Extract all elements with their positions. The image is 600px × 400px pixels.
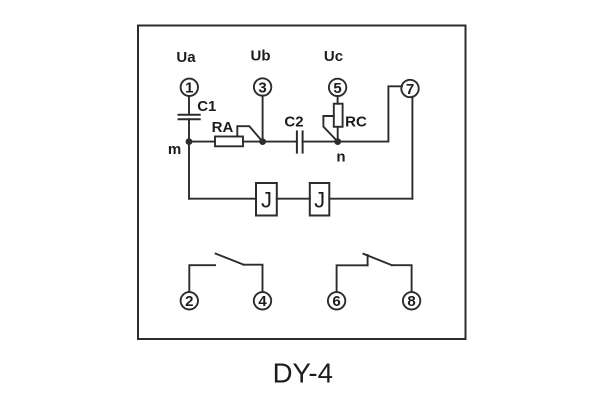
switch blade 2-4 xyxy=(216,254,244,265)
switch 6-8 contact stub xyxy=(367,255,369,265)
wire terminal 6 up xyxy=(337,265,368,292)
svg-text:Ua: Ua xyxy=(176,49,196,66)
wire to terminal 4 xyxy=(244,265,263,292)
svg-text:4: 4 xyxy=(258,293,267,310)
svg-text:m: m xyxy=(168,141,181,158)
border frame xyxy=(138,26,466,340)
svg-text:n: n xyxy=(336,149,345,166)
wire node m to RA xyxy=(189,141,215,143)
capacitor C2 xyxy=(284,114,303,153)
RA tap arm to node under terminal 3 xyxy=(237,126,262,141)
wire C1 to node m and down to relay row xyxy=(188,119,190,199)
terminal 1 xyxy=(181,79,198,97)
node under terminal 3 xyxy=(259,138,266,145)
svg-text:8: 8 xyxy=(407,293,415,310)
wire C2 to node n and corner riser to terminal 7 xyxy=(303,86,402,141)
svg-text:C2: C2 xyxy=(284,114,303,131)
node n xyxy=(334,138,345,165)
wire terminal 5 to RC xyxy=(337,96,339,104)
svg-text:5: 5 xyxy=(333,80,341,97)
svg-text:DY-4: DY-4 xyxy=(273,358,333,389)
terminal 5 xyxy=(329,79,346,97)
relay coil J2 xyxy=(310,183,330,216)
svg-text:2: 2 xyxy=(185,293,193,310)
terminal 7 xyxy=(401,80,418,98)
node m xyxy=(168,138,193,158)
terminal 2 xyxy=(181,292,198,310)
wire between coils xyxy=(277,198,310,200)
svg-text:Ub: Ub xyxy=(251,48,271,65)
wire terminal 7 down to relay row xyxy=(411,97,413,199)
svg-text:6: 6 xyxy=(332,293,340,310)
svg-text:Uc: Uc xyxy=(324,48,343,65)
wire terminal 2 up xyxy=(189,265,215,292)
wire terminal1 to C1 xyxy=(188,96,190,114)
wire RC to node n xyxy=(337,127,339,142)
relay coil J1 xyxy=(256,183,277,216)
wire relay row left xyxy=(189,198,256,200)
svg-text:7: 7 xyxy=(406,81,414,98)
RC tap arm to node n xyxy=(323,116,337,142)
terminal 8 xyxy=(403,292,420,310)
resistor RC xyxy=(334,104,367,131)
wire relay row right xyxy=(329,198,412,200)
capacitor C1 xyxy=(179,98,217,119)
svg-text:J: J xyxy=(314,188,325,213)
wire RA to C2 xyxy=(243,141,297,143)
terminal 3 xyxy=(254,78,271,96)
svg-text:C1: C1 xyxy=(197,98,216,115)
svg-text:J: J xyxy=(261,188,272,213)
resistor RA xyxy=(212,119,243,146)
svg-text:3: 3 xyxy=(258,79,266,96)
svg-text:RC: RC xyxy=(345,114,367,131)
wire terminal 3 down to node xyxy=(262,96,264,142)
terminal 4 xyxy=(254,292,271,310)
svg-text:1: 1 xyxy=(185,80,193,97)
switch blade 6-8 xyxy=(363,254,391,265)
terminal 6 xyxy=(328,292,345,310)
wire to terminal 8 xyxy=(392,265,412,292)
svg-text:RA: RA xyxy=(212,119,234,136)
